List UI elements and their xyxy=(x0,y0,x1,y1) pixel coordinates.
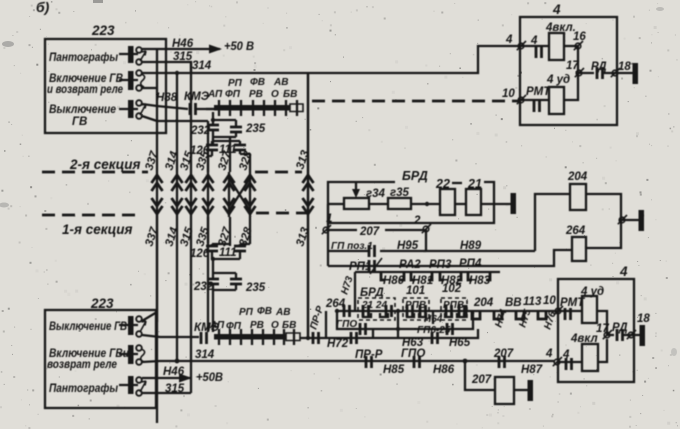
svg-text:БВ: БВ xyxy=(283,89,297,100)
svg-text:АВ: АВ xyxy=(275,307,290,318)
svg-text:О: О xyxy=(271,89,279,100)
svg-text:возврат реле: возврат реле xyxy=(47,359,118,371)
svg-text:АВ: АВ xyxy=(273,77,288,88)
svg-text:207: 207 xyxy=(359,226,380,238)
svg-text:РД: РД xyxy=(591,61,607,73)
svg-text:204: 204 xyxy=(473,297,494,309)
svg-text:314: 314 xyxy=(192,60,212,72)
svg-text:ГПО: ГПО xyxy=(336,319,357,330)
svg-text:РП4: РП4 xyxy=(459,258,482,270)
svg-text:10: 10 xyxy=(543,295,556,307)
svg-text:Выключение ГВ: Выключение ГВ xyxy=(49,321,127,333)
svg-text:264: 264 xyxy=(565,225,586,237)
svg-text:16: 16 xyxy=(573,31,586,43)
svg-text:223: 223 xyxy=(90,296,114,311)
svg-text:10: 10 xyxy=(502,88,515,100)
svg-text:РП3: РП3 xyxy=(429,259,452,271)
svg-text:Н87: Н87 xyxy=(521,364,543,376)
svg-text:Н89: Н89 xyxy=(460,240,482,252)
svg-text:18: 18 xyxy=(637,313,650,325)
svg-text:264: 264 xyxy=(325,298,346,310)
svg-text:ФП: ФП xyxy=(225,89,241,100)
svg-text:113: 113 xyxy=(523,296,542,308)
svg-text:ФВ: ФВ xyxy=(257,306,272,317)
svg-text:Н80: Н80 xyxy=(383,275,405,287)
svg-text:ВВ: ВВ xyxy=(505,297,522,309)
svg-text:Н65: Н65 xyxy=(449,337,471,349)
svg-text:РП: РП xyxy=(239,307,254,318)
svg-text:РП: РП xyxy=(228,78,243,89)
svg-text:ПР-Р: ПР-Р xyxy=(355,349,383,361)
svg-text:Выключение: Выключение xyxy=(49,104,117,116)
svg-text:ГВ: ГВ xyxy=(72,116,87,128)
svg-text:Н72: Н72 xyxy=(327,338,349,350)
svg-text:РМТ: РМТ xyxy=(526,86,551,98)
svg-text:235: 235 xyxy=(245,282,266,294)
svg-text:207: 207 xyxy=(471,374,492,386)
svg-text:21 24: 21 24 xyxy=(361,300,387,311)
svg-text:18: 18 xyxy=(618,61,631,73)
svg-text:4: 4 xyxy=(552,2,561,17)
svg-text:Н86: Н86 xyxy=(433,364,455,376)
svg-text:+50 В: +50 В xyxy=(224,41,254,53)
svg-text:ГП поз.1: ГП поз.1 xyxy=(331,241,373,252)
svg-text:Н88: Н88 xyxy=(156,92,178,104)
svg-text:б): б) xyxy=(36,0,50,15)
svg-text:РД: РД xyxy=(612,322,628,334)
svg-text:314: 314 xyxy=(195,349,215,361)
svg-text:101: 101 xyxy=(406,285,425,297)
svg-text:Н85: Н85 xyxy=(383,364,405,376)
svg-text:4: 4 xyxy=(545,348,553,360)
svg-text:и возврат реле: и возврат реле xyxy=(47,84,123,96)
svg-text:111: 111 xyxy=(219,247,236,259)
svg-text:РВ: РВ xyxy=(249,89,263,100)
svg-text:КМЭ: КМЭ xyxy=(184,91,210,103)
svg-text:4: 4 xyxy=(505,34,513,46)
svg-text:2: 2 xyxy=(413,215,421,227)
svg-text:4 уд: 4 уд xyxy=(546,74,570,86)
svg-text:17: 17 xyxy=(596,323,609,335)
svg-text:223: 223 xyxy=(91,23,115,38)
svg-text:АП: АП xyxy=(207,89,223,100)
svg-text:РА2: РА2 xyxy=(399,259,421,271)
svg-text:235: 235 xyxy=(245,123,266,135)
svg-text:2-я секция: 2-я секция xyxy=(69,157,141,172)
svg-text:ФП: ФП xyxy=(226,321,242,332)
svg-text:Н95: Н95 xyxy=(397,240,419,252)
svg-text:Н83: Н83 xyxy=(469,275,491,287)
svg-text:Пантографы: Пантографы xyxy=(49,52,118,64)
svg-text:4: 4 xyxy=(619,264,628,279)
svg-text:Пантографы: Пантографы xyxy=(49,383,118,395)
svg-text:БРД: БРД xyxy=(402,169,428,183)
svg-text:1-я секция: 1-я секция xyxy=(62,222,133,237)
svg-text:ФВ: ФВ xyxy=(250,77,265,88)
svg-text:+50В: +50В xyxy=(196,372,223,384)
svg-text:102: 102 xyxy=(442,283,462,295)
svg-text:204: 204 xyxy=(567,171,588,183)
